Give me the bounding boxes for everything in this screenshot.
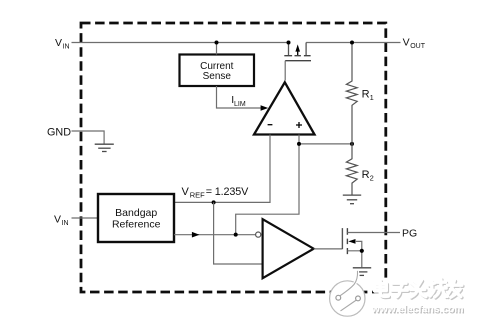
wire Q1 gate to op-amp output	[284, 61, 286, 81]
svg-text:R: R	[362, 169, 370, 181]
wire ILIM from current sense to op-amp	[217, 86, 262, 108]
wire top rail right to VOUT	[306, 42, 400, 44]
Q1 drain stub	[305, 43, 307, 56]
svg-text:V: V	[403, 37, 410, 49]
wire comparator output to Q2 gate	[314, 248, 343, 250]
transistor Q2 NMOS open-drain PG	[342, 228, 400, 267]
junction dot plus input	[297, 142, 301, 146]
junction dot rail/Q1 source	[287, 41, 291, 45]
wire feedback: op-amp plus input down to comparator bubble node	[236, 135, 299, 235]
label ILIM	[231, 94, 246, 108]
op-amp U1 error amplifier	[254, 82, 315, 134]
label VREF = 1.235V	[182, 186, 250, 199]
wire VIN bottom to bandgap	[72, 217, 99, 219]
junction dot rail/R1	[350, 41, 354, 45]
transistor Q1 PMOS pass element	[284, 43, 311, 81]
watermark url text	[371, 304, 465, 316]
svg-text:www.elecfans.com: www.elecfans.com	[371, 304, 464, 315]
junction dot comparator bubble node	[234, 233, 238, 237]
wire rail to current sense	[216, 43, 218, 55]
wire feedback to R1/R2 tap	[299, 143, 352, 145]
Q2 gate bar	[341, 228, 343, 249]
Q2 body arrow	[348, 239, 355, 244]
svg-text:REF: REF	[190, 191, 205, 200]
junction dot R1 R2 tap	[350, 142, 354, 146]
junction dot Q2 source/body	[360, 249, 364, 253]
svg-text:IN: IN	[63, 43, 70, 50]
junction dot rail/current-sense	[215, 41, 219, 45]
node PG pin label	[402, 227, 417, 239]
svg-text:2: 2	[370, 173, 374, 182]
Q1 gate line	[285, 60, 311, 62]
wire bandgap lower output to comparator bubble	[174, 234, 256, 236]
svg-text:V: V	[55, 37, 62, 49]
ground (R2)	[343, 195, 361, 204]
svg-text:R: R	[362, 89, 370, 101]
label plus input	[296, 122, 302, 128]
Q1 body arrow	[297, 51, 299, 56]
node GND pin label	[47, 127, 71, 139]
comparator inverting input bubble	[256, 232, 261, 237]
svg-text:= 1.235V: = 1.235V	[206, 186, 249, 198]
svg-text:PG: PG	[402, 227, 417, 239]
junction dot VREF	[212, 200, 216, 204]
node VIN (top pin label)	[55, 37, 70, 50]
svg-text:Reference: Reference	[112, 219, 161, 231]
ground (Q2 source)	[353, 268, 371, 276]
label R2	[362, 169, 374, 182]
resistor R2	[346, 144, 357, 195]
svg-text:OUT: OUT	[410, 43, 426, 50]
arrowhead ILIM	[261, 105, 269, 111]
svg-text:Bandgap: Bandgap	[115, 207, 157, 219]
wire Q2 drain to PG pin	[347, 232, 400, 234]
Q2 channel segments	[346, 228, 348, 254]
svg-text:1: 1	[370, 93, 374, 102]
Q2 source stub	[347, 251, 361, 267]
label minus input	[268, 124, 273, 126]
svg-text:Sense: Sense	[203, 71, 232, 82]
comparator U2	[263, 219, 314, 278]
IC boundary dashed border	[81, 23, 386, 292]
ground (GND pin)	[95, 144, 114, 151]
watermark logo circle	[330, 271, 365, 316]
wire VIN top rail	[72, 42, 289, 44]
svg-text:V: V	[182, 186, 190, 198]
resistor R1	[346, 43, 357, 144]
label R1	[362, 89, 374, 102]
wire VREF node: bandgap top output to op-amp inverting input	[174, 135, 270, 203]
node VOUT pin label	[403, 37, 426, 50]
wire GND	[72, 131, 105, 144]
current sense block U3	[180, 55, 255, 87]
arrowhead bandgap output	[192, 232, 200, 238]
wire VREF down to comparator lower input	[214, 202, 262, 264]
svg-text:LIM: LIM	[234, 101, 246, 108]
svg-text:GND: GND	[47, 127, 71, 139]
svg-text:IN: IN	[62, 220, 69, 227]
Q1 channel segments	[284, 55, 310, 57]
bandgap reference block U4	[98, 194, 174, 242]
node VIN (bottom pin label)	[54, 213, 69, 226]
svg-text:V: V	[54, 213, 61, 225]
Q1 source stub	[288, 43, 290, 56]
